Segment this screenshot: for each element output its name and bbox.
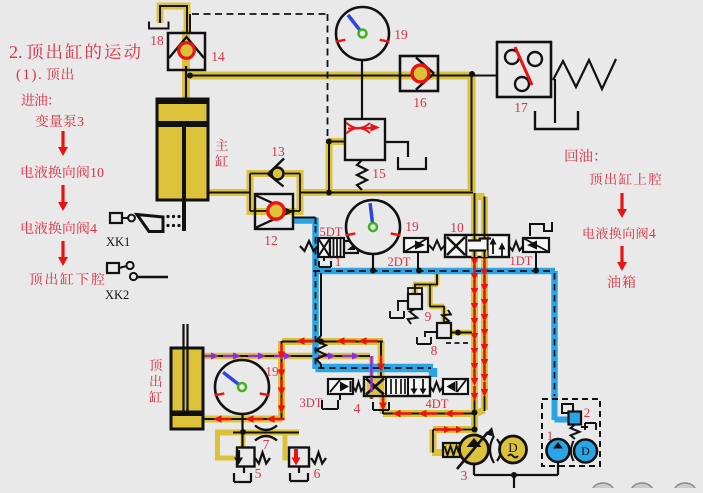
red arrows: pipe y=341 leftward bbox=[305, 340, 316, 343]
gauge 19 top bbox=[336, 7, 389, 60]
variable pump 3 bbox=[443, 443, 460, 457]
3DT drain bracket bbox=[322, 394, 340, 409]
svg-text:4: 4 bbox=[649, 226, 656, 241]
svg-text:9: 9 bbox=[425, 309, 432, 324]
T port bracket below valve 4 bbox=[373, 402, 389, 410]
顶出缸上腔 bbox=[589, 173, 661, 185]
pilot pump 1 bbox=[547, 439, 570, 462]
coupling arcs bbox=[490, 436, 494, 463]
wire: blue vertical main bbox=[312, 218, 319, 370]
svg-text:3DT: 3DT bbox=[300, 396, 323, 410]
red arrow bbox=[61, 241, 64, 257]
油箱 bbox=[608, 275, 636, 288]
check valve 13 bbox=[268, 159, 284, 187]
svg-text:D: D bbox=[581, 444, 590, 458]
svg-text:18: 18 bbox=[150, 33, 164, 48]
进油： bbox=[21, 93, 51, 106]
gauge 19 bottom bbox=[215, 360, 269, 414]
svg-text:12: 12 bbox=[264, 233, 278, 248]
svg-text:10: 10 bbox=[90, 166, 104, 181]
directional valve 4 bbox=[328, 379, 353, 394]
relief valve 5 bbox=[237, 448, 255, 467]
red arrow bbox=[61, 185, 64, 202]
svg-text:1: 1 bbox=[335, 254, 342, 269]
svg-text:4: 4 bbox=[90, 222, 97, 237]
relief valve 9 bbox=[408, 288, 422, 294]
aux motor D bbox=[574, 440, 597, 463]
directional valve 10 bbox=[404, 238, 428, 252]
solenoid valve 11 (5DT) bbox=[300, 241, 318, 251]
svg-text:1DT: 1DT bbox=[510, 254, 533, 268]
svg-text:4DT: 4DT bbox=[426, 397, 449, 411]
spring of 17 bbox=[553, 59, 616, 89]
svg-text:D: D bbox=[508, 440, 517, 455]
back-pressure spring line bbox=[320, 273, 322, 336]
电液换向阀4 bbox=[22, 221, 89, 234]
wire: blue return from valve 12 bbox=[293, 217, 316, 224]
throttle valve 7 bbox=[255, 426, 277, 431]
顶出缸下腔 bbox=[29, 272, 104, 285]
wire: pump control loop bbox=[432, 411, 475, 453]
svg-text:XK1: XK1 bbox=[106, 235, 130, 249]
wire centers bbox=[160, 6, 187, 34]
wire: bypass loop around valves 12/13 bbox=[250, 174, 300, 212]
red arrows: vertical pipe right of ejection cylinder bbox=[280, 344, 283, 352]
purple overlay through valve 4 bbox=[370, 377, 372, 392]
tank below 17 bbox=[554, 79, 556, 123]
red arrow bbox=[61, 131, 64, 147]
wire: valve 9 stub up bbox=[435, 268, 440, 285]
relief valve 6 bbox=[289, 448, 309, 467]
wire: valve 8 to twin pipe bbox=[450, 330, 472, 336]
relief valve 2 bbox=[562, 404, 573, 413]
red flow arrows: twin vertical pipes bbox=[473, 251, 476, 258]
wire: ejection cylinder top pipe bbox=[203, 353, 370, 360]
gauge 19 middle bbox=[346, 200, 400, 254]
travel switch XK2 bbox=[107, 263, 119, 273]
svg-text:15: 15 bbox=[372, 166, 386, 181]
wire: blue main horizontal return line bbox=[313, 268, 556, 275]
svg-text:6: 6 bbox=[314, 466, 321, 481]
wire: top horizontal pipe from valve 14 to right bbox=[186, 72, 471, 80]
svg-text:10: 10 bbox=[450, 220, 464, 235]
pilot dashed line from valve 14 to valve 15 junction bbox=[192, 14, 328, 137]
svg-text:2DT: 2DT bbox=[388, 255, 411, 269]
pilot operated valve 12 bbox=[255, 194, 293, 229]
变量泵3 bbox=[35, 114, 76, 127]
wire: branch to valve 15 bbox=[329, 138, 346, 145]
wire: blue drop to aux pump box bbox=[551, 271, 558, 399]
svg-text:19: 19 bbox=[394, 27, 408, 42]
ports of valve 10 to return line bbox=[417, 252, 419, 268]
wire: valve4 to ejection cylinder bottom path bbox=[203, 341, 383, 419]
wire: middle horizontal pipe from main cylinder bbox=[208, 189, 472, 196]
svg-text:19: 19 bbox=[265, 364, 279, 379]
mechanical link dots bbox=[166, 215, 169, 218]
svg-text:XK2: XK2 bbox=[105, 288, 129, 302]
wire: blue line over valve 4 bbox=[316, 368, 434, 377]
red arrows: bottom pipe into ejection cylinder bbox=[222, 418, 232, 421]
svg-text:(1).: (1). bbox=[16, 67, 43, 83]
travel switch XK1 bbox=[110, 213, 122, 223]
wire: valve 9 loop bbox=[413, 285, 444, 325]
main cylinder 主缸 bbox=[157, 99, 208, 200]
wire: upper-right vertical pipe down bbox=[468, 73, 476, 193]
svg-text:19: 19 bbox=[405, 219, 419, 234]
wire: valves 5/6 header bbox=[215, 430, 299, 436]
valve 14 prefill valve bbox=[168, 33, 205, 70]
label 顶出缸 bbox=[149, 359, 162, 403]
电液换向阀4 bbox=[584, 227, 648, 239]
回油： bbox=[566, 149, 598, 162]
pilot hook above 1DT bbox=[530, 222, 552, 236]
svg-text:5: 5 bbox=[255, 466, 262, 481]
svg-text:13: 13 bbox=[271, 144, 285, 159]
red arrow bbox=[620, 246, 623, 262]
label 主缸 bbox=[215, 139, 228, 167]
wire: bottom horizontal to valve 4 bbox=[383, 410, 475, 417]
electric motor D bbox=[500, 436, 527, 463]
junction dots bbox=[187, 73, 193, 79]
purple return-flow arrows from ejection cylinder top bbox=[201, 355, 211, 357]
svg-text:16: 16 bbox=[413, 95, 427, 110]
drain of valve 11 bbox=[319, 257, 331, 267]
dashed centers of blue pipes bbox=[293, 218, 316, 225]
wire: twin vertical pressure pipes bbox=[471, 193, 478, 414]
bottom suction lines bbox=[474, 462, 558, 488]
svg-text:17: 17 bbox=[514, 100, 528, 115]
电液换向阀10 bbox=[22, 165, 89, 178]
svg-text:14: 14 bbox=[211, 49, 225, 64]
check valve 16 bbox=[400, 56, 438, 91]
svg-text:2: 2 bbox=[584, 405, 591, 420]
svg-text:3: 3 bbox=[461, 468, 468, 483]
relief valve 15 bbox=[345, 119, 385, 160]
wire: valve14 down to main cylinder bbox=[182, 30, 190, 100]
svg-text:2.: 2. bbox=[9, 42, 23, 62]
svg-text:3: 3 bbox=[77, 115, 84, 130]
red arrows: bottom pipe y=413 leftward bbox=[401, 412, 412, 415]
svg-text:7: 7 bbox=[263, 437, 270, 452]
dashed box around aux pump unit bbox=[542, 399, 600, 466]
ejection cylinder 顶出缸 bbox=[171, 348, 203, 429]
coupling arcs aux bbox=[571, 441, 574, 461]
red arrows: pump control line rightward bbox=[435, 428, 444, 431]
red arrow bbox=[620, 193, 623, 209]
pressure switch 17 bbox=[497, 42, 551, 97]
svg-text:8: 8 bbox=[431, 343, 438, 358]
svg-text:5DT: 5DT bbox=[320, 225, 343, 239]
wire: vertical link valve15 junction bbox=[326, 139, 333, 193]
navigation buttons bottom right bbox=[592, 483, 614, 493]
svg-text:1: 1 bbox=[547, 428, 554, 443]
svg-text:4: 4 bbox=[354, 401, 361, 416]
pilot dashed below valve 8 bbox=[446, 342, 470, 344]
relief valve 8 bbox=[437, 323, 451, 338]
wire: breather loop above valve 14 bbox=[160, 6, 187, 34]
